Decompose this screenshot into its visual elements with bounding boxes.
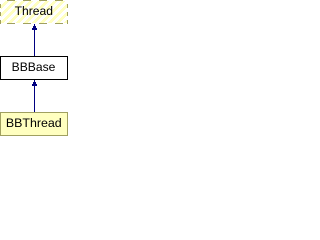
node Thread dashed olive border: right edge dashes	[67, 4, 68, 24]
node Thread dashed olive border: bottom edge dashes	[7, 23, 63, 24]
svg-text:BBThread: BBThread	[6, 116, 62, 130]
svg-text:BBBase: BBBase	[12, 60, 56, 74]
inheritance arrow 2: BBThread to BBBase (navy, head up)	[32, 80, 37, 112]
node BBThread (current class): yellow fill, olive border	[0, 112, 68, 136]
node Thread dashed olive border: top edge dashes	[7, 0, 63, 1]
node BBBase: white box, black border	[0, 56, 68, 80]
node Thread dashed olive border: left edge dashes	[0, 4, 1, 24]
node Thread (undocumented external class): hatched fill	[0, 0, 68, 24]
node Thread white border base ring	[0, 0, 68, 1]
svg-text:Thread: Thread	[15, 4, 53, 18]
inheritance arrow 1: BBBase to Thread (hollow shaft, filled head up)	[32, 24, 37, 56]
